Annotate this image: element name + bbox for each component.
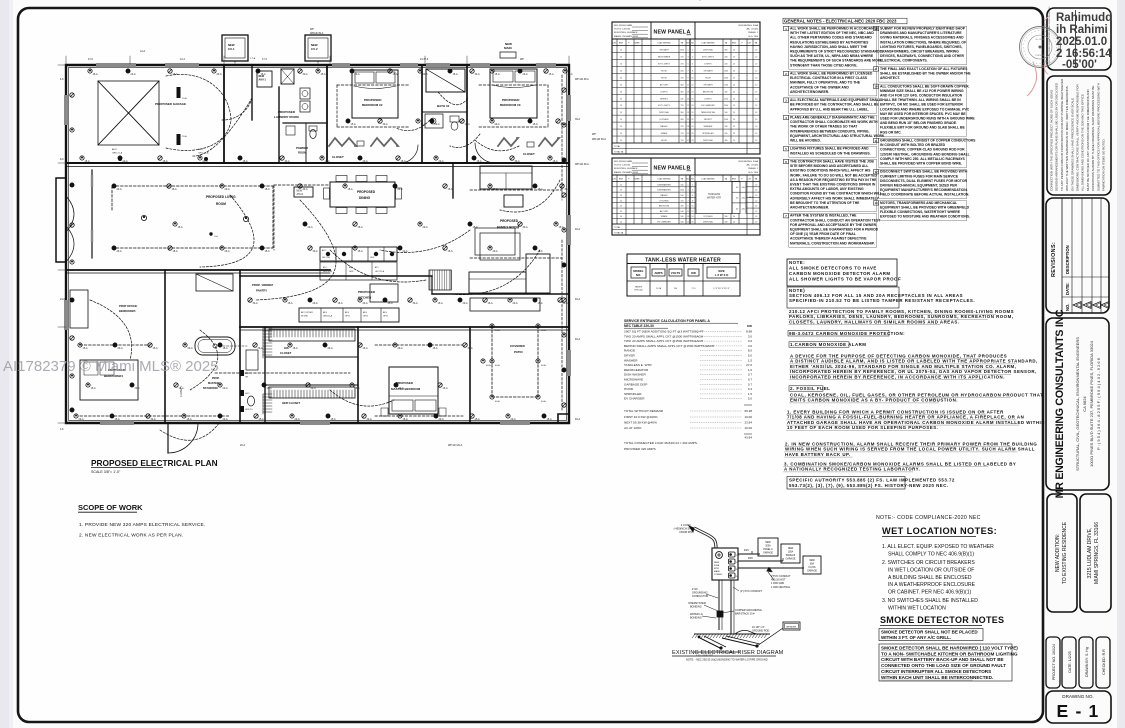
svg-text:NPE2-A2: NPE2-A2 [634,289,643,292]
svg-text:EV CHARGER: EV CHARGER [624,397,645,401]
svg-text:IN WET LOCATION OR OUTSIDE OF: IN WET LOCATION OR OUTSIDE OF [888,567,974,573]
svg-text:FED FROM: MAIN: FED FROM: MAIN [614,24,633,27]
svg-text:WASHER: WASHER [624,358,638,362]
family room table [504,195,523,207]
svg-text:1200: 1200 [724,77,728,79]
svg-text:GFCI: GFCI [345,316,350,318]
svg-text:26: 26 [692,133,694,135]
svg-text:MOTORS, TRANSFORMERS AND MECHA: MOTORS, TRANSFORMERS AND MECHANICAL [880,201,957,205]
svg-text:DIG SIG: DIG SIG [1049,41,1051,49]
svg-text:GARAGE: GARAGE [786,558,796,561]
svg-text:40-A: 40-A [575,338,580,341]
svg-text:1.0: 1.0 [755,105,757,107]
svg-text:CLOSET: CLOSET [523,152,535,156]
svg-text:15-A: 15-A [223,347,228,350]
svg-text:6: 6 [692,63,693,65]
svg-text:SMOKE DETECTOR SHALL NOT BE PL: SMOKE DETECTOR SHALL NOT BE PLACED [881,630,978,635]
svg-text:STATE OF: STATE OF [1035,54,1046,57]
svg-text:1.5: 1.5 [748,392,753,396]
svg-text:ROOM: ROOM [216,202,226,206]
svg-text:NOTE: - NEC 250.53 (A)(2) BOND: NOTE: - NEC 250.53 (A)(2) BONDING TO WAT… [686,658,768,662]
kitchen counter appliances [299,308,399,322]
svg-text:15-A: 15-A [293,347,298,350]
svg-text:40-A: 40-A [575,228,580,231]
svg-text:1.0: 1.0 [755,50,757,52]
svg-text:CIRCUIT WITH BATTERY BACK-UP A: CIRCUIT WITH BATTERY BACK-UP AND SHALL N… [881,657,1004,662]
svg-text:540: 540 [725,126,728,128]
svg-text:180: 180 [725,91,728,93]
dimension tick marks [58,56,569,423]
svg-text:BONDING: BONDING [690,606,702,609]
svg-text:1: 1 [688,50,689,52]
closet zigzag bedroom3 [498,138,518,146]
AHU closet laundry [257,71,272,87]
svg-text:GRD 21-A: GRD 21-A [112,152,123,155]
corridor dashed [215,372,350,374]
svg-text:20: 20 [620,119,622,121]
svg-text:BKR: BKR [732,43,737,45]
svg-text:180: 180 [725,56,728,58]
svg-text:20-A: 20-A [495,123,500,126]
signature box [1047,8,1111,70]
svg-text:20-A: 20-A [511,418,516,421]
svg-text:EXT LIGHTS: EXT LIGHTS [702,56,714,58]
svg-text:18: 18 [692,105,694,107]
svg-text:40-A: 40-A [486,364,491,367]
general note 2 [784,71,789,75]
family room sofa top [480,166,532,189]
svg-text:720: 720 [681,56,684,58]
svg-text:LIGHTS: LIGHTS [704,98,712,100]
svg-text:FAMILY ROOM: FAMILY ROOM [497,226,519,230]
svg-text:1.0: 1.0 [755,206,757,208]
svg-text:20: 20 [692,112,694,114]
svg-text:20: 20 [620,77,622,79]
svg-text:3. NO SWITCHES SHALL BE INSTAL: 3. NO SWITCHES SHALL BE INSTALLED [882,598,978,604]
svg-text:PLANS ARE GENERALLY DIAGRAMMAT: PLANS ARE GENERALLY DIAGRAMMATIC AND THE [790,116,875,120]
svg-text:GFCI: GFCI [363,316,368,318]
new cu disconnect box [803,556,821,574]
svg-text:20-A: 20-A [398,188,403,191]
svg-text:20: 20 [733,98,735,100]
svg-text:15-A: 15-A [448,250,453,253]
svg-text:FROM FPL: FROM FPL [679,530,693,534]
svg-text:AMPS: AMPS [654,271,662,275]
svg-text:BONDING: BONDING [690,617,702,620]
svg-text:WASHER: WASHER [704,125,713,128]
svg-text:ALL WORK SHALL BE PERFORMED IN: ALL WORK SHALL BE PERFORMED IN ACCORDANC… [790,27,879,31]
revisions box [1046,198,1109,313]
svg-text:6: 6 [692,195,693,197]
svg-text:15-A: 15-A [351,123,356,126]
svg-text:27.0: 27.0 [746,363,752,367]
svg-text:30-A: 30-A [367,418,372,421]
svg-text:ARCHITECT/ENGINEER.: ARCHITECT/ENGINEER. [790,206,829,210]
svg-text:CONDITIONS SHOWN BY THESE DRAW: CONDITIONS SHOWN BY THESE DRAWINGS. SHOP… [1091,86,1095,191]
svg-text:15-A: 15-A [265,188,270,191]
svg-text:SUBMIT FOR REVIEW PROPERLY IDE: SUBMIT FOR REVIEW PROPERLY IDENTIFIED SH… [880,27,966,31]
svg-text:1200: 1200 [724,84,728,86]
svg-text:20-A: 20-A [439,160,444,163]
svg-text:ATO: ATO [323,266,327,269]
svg-text:23: 23 [687,126,689,128]
svg-text:ELECTRICAL COMPONENTS.: ELECTRICAL COMPONENTS. [880,59,928,63]
dining vertical dashed [273,185,275,250]
svg-text:20: 20 [733,70,735,72]
svg-text:LIGHTING FIXTURES SHALL BE PRO: LIGHTING FIXTURES SHALL BE PROVIDED AND [790,147,869,151]
svg-text:SHALL BE PROVIDED WITH COPPER: SHALL BE PROVIDED WITH COPPER BOND WIRE. [880,162,962,166]
svg-text:PROPOSED: PROPOSED [396,381,414,385]
svg-text:DISH WASHER: DISH WASHER [624,373,646,377]
svg-text:40-A: 40-A [495,364,500,367]
svg-text:14: 14 [692,91,694,93]
svg-text:INSTALLATION DIRECTIONS, WHERE: INSTALLATION DIRECTIONS, WHERE REQUIRED,… [880,40,966,44]
svg-text:40-A: 40-A [575,418,580,421]
svg-text:10 FEET OF EACH ROOM USED FOR: 10 FEET OF EACH ROOM USED FOR SLEEPING P… [787,425,938,430]
svg-text:GFCI: GFCI [245,393,250,395]
drawn by box [1079,637,1093,688]
svg-text:1200: 1200 [724,98,728,100]
svg-text:15-A: 15-A [267,387,272,390]
svg-text:ROOM: ROOM [298,151,307,155]
svg-text:CONDUCTOR: CONDUCTOR [692,595,708,598]
svg-text:2: 2 [692,184,693,186]
svg-text:30-A: 30-A [258,347,263,350]
svg-text:1.0: 1.0 [755,140,757,142]
signature vertical line [1075,10,1077,68]
svg-text:20-A: 20-A [523,73,528,76]
svg-text:HOOD: HOOD [661,140,668,142]
svg-text:GRINDER: GRINDER [786,627,797,629]
svg-text:AIC: 22,000: AIC: 22,000 [746,164,758,167]
svg-text:9B-3.0472 CARBON MONOXIDE PROT: 9B-3.0472 CARBON MONOXIDE PROTECTION: [789,331,905,336]
svg-text:LOAD SERVED: LOAD SERVED [701,42,715,45]
svg-text:20-A: 20-A [398,347,403,350]
svg-text:8.0: 8.0 [748,349,753,353]
svg-text:15: 15 [687,222,689,224]
svg-text:15-A: 15-A [85,160,90,163]
svg-text:THE CONTRACTOR SHALL HAVE VISI: THE CONTRACTOR SHALL HAVE VISITED THE JO… [790,160,874,164]
svg-text:LOAD SERVED: LOAD SERVED [657,178,671,181]
svg-text:SHALL COMPLY TO NEC 406.9(B)(1: SHALL COMPLY TO NEC 406.9(B)(1) [888,552,974,558]
signature text [1056,12,1112,71]
svg-text:INCORPORATED HEREIN BY REFEREN: INCORPORATED HEREIN BY REFERENCE, IN ACC… [790,374,1005,379]
svg-text:15-A: 15-A [358,250,363,253]
svg-text:1. ALL ELECT. EQUIP. EXPOSED T: 1. ALL ELECT. EQUIP. EXPOSED TO WEATHER [882,544,994,550]
svg-text:INTERFERENCES BETWEEN CONDUITS: INTERFERENCES BETWEEN CONDUITS, PIPING, [790,129,870,133]
svg-text:CONTRACTOR SHALL COORDINATE HI: CONTRACTOR SHALL COORDINATE HIS WORK WIT… [790,120,878,124]
svg-text:SMOKE DETECTOR NOTES: SMOKE DETECTOR NOTES [880,615,1004,625]
svg-text:ELECTRICAL CONTRACTOR IN A FIR: ELECTRICAL CONTRACTOR IN A FIRST CLASS [790,76,868,80]
svg-text:20-A: 20-A [513,302,518,305]
svg-text:DRAWINGS AND MANUFACTURER'S LI: DRAWINGS AND MANUFACTURER'S LITERATURE [880,31,962,35]
svg-text:GARAGE: GARAGE [763,552,773,555]
svg-text:GFCI: GFCI [383,316,388,318]
bottom right corner notch [558,414,569,423]
project name box [1047,494,1077,612]
exterior window bands [64,63,571,425]
svg-text:30-A: 30-A [253,302,258,305]
svg-text:SCOPE OF WORK: SCOPE OF WORK [78,503,143,512]
svg-text:MTR: MTR [714,568,719,570]
his closet comb [269,329,355,341]
svg-text:AFTER THE SYSTEM IS INSTALLED,: AFTER THE SYSTEM IS INSTALLED, THE [790,214,857,218]
svg-text:21.37-6: 21.37-6 [420,58,429,61]
svg-text:15-A: 15-A [179,387,184,390]
svg-text:CIRCUIT INTERRUPTER ALL SMOKE: CIRCUIT INTERRUPTER ALL SMOKE DETECTORS [881,669,991,674]
project address box [1080,494,1111,612]
svg-text:TO A NON- SWITCHABLE KITCHEN O: TO A NON- SWITCHABLE KITCHEN OR BATHROOM… [881,651,1018,656]
svg-text:BEDROOM #3: BEDROOM #3 [500,103,521,107]
svg-text:20-A: 20-A [328,347,333,350]
laundry tankless water heater [281,69,294,84]
svg-text:A NATIONALLY RECOGNIZED TESTIN: A NATIONALLY RECOGNIZED TESTING LABORATO… [784,467,920,472]
svg-text:NO.: NO. [636,273,641,277]
svg-text:47-6: 47-6 [88,58,93,61]
svg-text:DESIGNS ARRANGEMENTS OR PLANS: DESIGNS ARRANGEMENTS OR PLANS SHALL BE U… [1055,82,1059,191]
svg-text:540: 540 [725,222,728,224]
svg-text:ON THESE DRAWINGS SHALL HAVE P: ON THESE DRAWINGS SHALL HAVE PRECEDENCE … [1070,98,1074,191]
general note 10 [874,84,879,88]
svg-text:2"PVC CONDUIT: 2"PVC CONDUIT [771,575,791,578]
svg-text:10: 10 [692,77,694,79]
new panel B box [781,544,800,563]
svg-text:SPRINKLER: SPRINKLER [624,392,642,396]
svg-text:SHALL BE ESTABLISHED BY THE OW: SHALL BE ESTABLISHED BY THE OWNER AND/OR… [880,72,971,76]
general note 13 [874,201,879,205]
svg-text:SPARE: SPARE [661,132,668,135]
svg-text:30-A: 30-A [563,302,568,305]
svg-text:MATERIALS, CONSTRUCTION AND WO: MATERIALS, CONSTRUCTION AND WORKMANSHIP. [790,241,875,245]
svg-text:1.7-A: 1.7-A [250,57,256,60]
svg-text:20: 20 [620,105,622,107]
cu service leader lines [234,61,236,65]
svg-text:1. PROVIDE NEW 320 AMPS ELECTR: 1. PROVIDE NEW 320 AMPS ELECTRICAL SERVI… [79,522,205,528]
rod bottom line [694,651,740,653]
svg-text:DISHWASHER: DISHWASHER [657,189,671,192]
bath2 toilet [450,116,459,122]
svg-text:20: 20 [733,56,735,58]
svg-text:10.00: 10.00 [744,426,752,430]
svg-text:ATG: ATG [383,311,388,314]
svg-text:L X W X D: L X W X D [715,273,729,277]
svg-text:TRANSFORMERS, CIRCUIT BREAKERS: TRANSFORMERS, CIRCUIT BREAKERS, WIRING [880,50,959,54]
svg-text:EXT LIGHTS: EXT LIGHTS [658,63,670,65]
svg-text:FABRICATION ON ITEMS SO NOTED.: FABRICATION ON ITEMS SO NOTED. [1102,138,1106,191]
svg-text:10031 PINES BLVD SUITE 237, P: 10031 PINES BLVD SUITE 237, PEMBROKE PIN… [1089,340,1094,467]
svg-text:ALL OTHER PERTAINING CODES AND: ALL OTHER PERTAINING CODES AND STANDARD [790,36,872,40]
svg-text:GRD P-6: GRD P-6 [245,409,253,411]
svg-text:30-A: 30-A [468,347,473,350]
svg-text:15-A: 15-A [477,160,482,163]
svg-text:20: 20 [620,222,622,224]
breakfast banquette [470,298,540,311]
svg-text:PROP.: PROP. [212,377,220,380]
svg-text:15-A: 15-A [338,302,343,305]
svg-text:13: 13 [687,91,689,93]
svg-text:KITCHEN: KITCHEN [660,200,669,202]
svg-text:CLOSET: CLOSET [332,155,344,159]
ground mound [735,630,763,634]
svg-text:MICROWAVE: MICROWAVE [624,378,643,382]
svg-text:AND #14 FOR 12V GFS. CONDUCTOR: AND #14 FOR 12V GFS. CONDUCTOR INSULATIO… [880,94,963,98]
svg-text:WIRE: WIRE [635,179,641,181]
pvc conduit callout [768,572,774,580]
svg-text:GIVING MATERIALS, FINISHES ACC: GIVING MATERIALS, FINISHES ACCESSORIES A… [880,36,964,40]
svg-text:CU DS: CU DS [808,567,816,569]
svg-text:FIRST 10.0 KW @100%: FIRST 10.0 KW @100% [624,415,658,419]
svg-text:20: 20 [733,133,735,135]
svg-text:40-A: 40-A [541,364,546,367]
svg-text:PATIO: PATIO [514,350,523,354]
svg-text:20-A: 20-A [188,347,193,350]
svg-text:20-A: 20-A [223,387,228,390]
svg-text:THE REQUIREMENTS OF SUCH STAND: THE REQUIREMENTS OF SUCH STANDARDS ARE M… [790,59,883,63]
svg-text:FOR APPROVAL AND ACCEPTANCE BY: FOR APPROVAL AND ACCEPTANCE BY THE OWNER… [790,223,877,227]
svg-text:EXT LIGHTS: EXT LIGHTS [658,105,670,107]
svg-text:NEW: NEW [809,560,815,562]
svg-text:HOOD: HOOD [705,77,712,79]
svg-text:4(3) 3/0 HOT: 4(3) 3/0 HOT [771,579,786,582]
svg-text:EXTRA AMOUNTS OF LABOR, ANY EX: EXTRA AMOUNTS OF LABOR, ANY EXISTING [790,187,864,191]
svg-text:20-A: 20-A [203,160,208,163]
svg-text:15-A: 15-A [187,418,192,421]
svg-text:DIMENSIONS. CONTRACTORS SHALL: DIMENSIONS. CONTRACTORS SHALL VERIFY AND… [1076,84,1080,191]
svg-text:APPROVED BY U.L. AND BEAR THE: APPROVED BY U.L. AND BEAR THE U.L. LABEL… [790,107,869,111]
svg-text:15-A: 15-A [288,302,293,305]
kitchen wall hatch strip [430,270,452,290]
svg-text:MINIMUM SIZE SHALL BE #12 FOR: MINIMUM SIZE SHALL BE #12 FOR POWER WIRI… [880,89,964,93]
svg-text:15-A: 15-A [93,73,98,76]
svg-text:GFI: GFI [245,377,249,379]
svg-text:ALL SHOWER LIGHTS TO BE VAPOR: ALL SHOWER LIGHTS TO BE VAPOR PROOF [789,277,901,282]
svg-text:WITHIN 3 FT. OF ANY A/C GRILL.: WITHIN 3 FT. OF ANY A/C GRILL. [881,635,951,640]
garage right wall [223,65,225,163]
svg-text:30-A: 30-A [383,123,388,126]
svg-text:AI1782379 © Miami MLS® 2025: AI1782379 © Miami MLS® 2025 [3,358,219,375]
svg-text:1200: 1200 [724,105,728,107]
svg-text:10: 10 [692,206,694,208]
svg-text:553.73(2), (3), (7), (9), 553.: 553.73(2), (3), (7), (9), 553.885(2) FS.… [789,483,949,488]
svg-text:20: 20 [620,216,622,218]
svg-text:ALL SMOKE DETECTORS TO HAVE: ALL SMOKE DETECTORS TO HAVE [789,266,877,271]
svg-text:15-A: 15-A [265,250,270,253]
wall band y163 [66,162,569,164]
svg-text:1200: 1200 [724,70,728,72]
svg-text:TOTAL: TOTAL [614,226,621,229]
svg-text:1 #3/0 GRD: 1 #3/0 GRD [771,582,784,585]
svg-text:SPRINKLER: SPRINKLER [702,133,714,135]
svg-text:17-4: 17-4 [262,58,267,61]
svg-text:15-A: 15-A [91,387,96,390]
svg-text:ATO: ATO [375,266,379,269]
svg-text:11: 11 [687,84,689,86]
svg-text:720: 720 [681,133,684,135]
svg-text:HOOD: HOOD [624,387,634,391]
svg-text:RGS OR IMC.: RGS OR IMC. [880,130,902,134]
svg-text:DATE: 1/2/25: DATE: 1/2/25 [1068,651,1072,672]
svg-text:MASTER: MASTER [208,382,219,385]
checked by box [1096,637,1110,688]
svg-text:20-A: 20-A [223,418,228,421]
svg-text:15-A: 15-A [547,418,552,421]
svg-text:30-A: 30-A [413,302,418,305]
svg-text:20-A: 20-A [423,226,428,229]
svg-text:15-A: 15-A [448,188,453,191]
svg-text:540: 540 [725,63,728,65]
svg-text:MAIN: MAIN [714,570,720,573]
svg-text:GRD: GRD [370,257,375,259]
svg-text:E - 1: E - 1 [1057,701,1100,721]
svg-text:540: 540 [725,133,728,135]
svg-text:15-A: 15-A [533,123,538,126]
svg-text:PANEL A: PANEL A [763,548,773,551]
garage door arcs [222,98,252,120]
svg-text:A/C UNIT: A/C UNIT [660,210,669,213]
svg-text:13: 13 [687,216,689,218]
svg-text:1 #3/0 NEUTRAL: 1 #3/0 NEUTRAL [771,586,791,589]
svg-text:HOOD: HOOD [661,70,668,72]
svg-text:1.0: 1.0 [755,190,757,192]
stamp red marks [1027,62,1037,96]
svg-text:WIRE: WIRE [635,43,641,45]
svg-text:ALL DIMENSIONS AND CONDITIONS: ALL DIMENSIONS AND CONDITIONS ON THE JOB… [1081,94,1085,191]
svg-text:15-A: 15-A [475,418,480,421]
calc totals [744,404,752,406]
svg-text:FED FROM: MAIN: FED FROM: MAIN [614,160,633,163]
svg-text:4: 4 [692,56,693,58]
svg-text:720: 720 [681,126,684,128]
svg-text:HAVING JURISDICTION, AND SHALL: HAVING JURISDICTION, AND SHALL MEET THE [790,45,868,49]
svg-text:PANTRY: PANTRY [256,289,267,293]
svg-text:Rahimudd: Rahimudd [1056,12,1112,24]
svg-text:540: 540 [725,112,728,114]
svg-text:15-A: 15-A [331,418,336,421]
svg-text:5: 5 [688,195,689,197]
svg-text:180: 180 [681,206,684,208]
svg-text:180: 180 [725,216,728,218]
svg-text:WP: WP [592,133,596,136]
svg-text:TOTAL VA: TOTAL VA [614,151,624,154]
svg-text:NEW ADDITION:: NEW ADDITION: [1055,534,1061,572]
svg-text:15-A: 15-A [438,302,443,305]
project no box [1046,637,1060,688]
svg-text:NAVIEN: NAVIEN [635,286,643,289]
svg-text:20: 20 [620,133,622,135]
general note 6 [784,159,789,163]
svg-text:15-A: 15-A [465,123,470,126]
svg-text:GRD: GRD [349,271,354,273]
svg-text:15-A: 15-A [83,347,88,350]
svg-text:15-A: 15-A [393,73,398,76]
svg-text:TOTAL CONNECTED LOAD 48.8: TOTAL CONNECTED LOAD 48.84/0.24 = 204 AM… [624,441,698,445]
svg-text:15-A: 15-A [173,250,178,253]
svg-text:20: 20 [620,63,622,65]
svg-text:SHALL BE THW/THWN. ALL WIRING: SHALL BE THW/THWN. ALL WIRING SHALL BE I… [880,98,961,102]
svg-text:1500: 1500 [680,50,684,52]
svg-text:40-A: 40-A [541,400,546,403]
svg-text:1.0: 1.0 [748,368,753,372]
svg-text:1.0: 1.0 [755,222,757,224]
svg-text:TO ANY PERSON FIRM OR CORPORAT: TO ANY PERSON FIRM OR CORPORATION FOR AN… [1060,78,1064,191]
svg-text:1.0: 1.0 [755,195,757,197]
svg-text:360: 360 [681,112,684,114]
svg-text:WATER HTR: WATER HTR [707,197,721,200]
drawing number box [1046,691,1111,723]
svg-text:DISPOSAL: DISPOSAL [703,139,714,142]
svg-text:ACCEPTANCE THEREOF AGAINST DEF: ACCEPTANCE THEREOF AGAINST DEFECTIVE [790,237,867,241]
svg-text:2. FOSSIL FUEL: 2. FOSSIL FUEL [790,386,830,391]
